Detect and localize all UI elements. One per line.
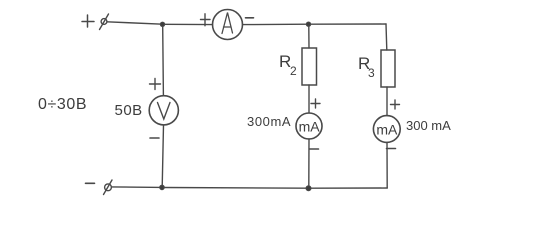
terminal X2 (- output, bottom-left)	[86, 180, 113, 195]
label 300 mA (right)	[406, 118, 451, 133]
svg-text:50B: 50B	[115, 102, 143, 119]
svg-text:300mA: 300mA	[247, 114, 291, 129]
node junction V-branch bottom	[160, 185, 165, 190]
svg-text:2: 2	[290, 64, 297, 78]
svg-text:0÷30B: 0÷30B	[38, 96, 87, 113]
resistor R2	[302, 26, 317, 113]
voltmeter V (50B)	[149, 27, 178, 188]
svg-text:300 mA: 300 mA	[406, 118, 451, 133]
label 0÷30B (voltmeter range)	[38, 96, 87, 113]
label 300mA (left)	[247, 114, 291, 129]
node junction R2-branch bottom	[306, 186, 311, 191]
svg-text:mA: mA	[299, 119, 321, 135]
node junction R2-branch top	[306, 22, 310, 26]
terminal X1 (+ input, top-left)	[82, 14, 109, 30]
ammeter A	[201, 10, 254, 40]
svg-text:mA: mA	[376, 122, 398, 138]
wire top to ammeter	[165, 23, 213, 25]
wire top-left segment	[107, 22, 163, 24]
wire bottom-right segment	[311, 187, 387, 189]
label 50B	[115, 102, 143, 119]
milliammeter PA3 (right, 300 mA)	[373, 100, 400, 188]
resistor R3	[381, 24, 395, 116]
wire ammeter to R2 junction	[243, 23, 309, 25]
wire top-right segment	[311, 23, 387, 25]
label R2	[279, 52, 297, 78]
node junction V-branch top	[160, 22, 164, 26]
milliammeter PA2 (left, 300mA)	[296, 99, 322, 188]
wire bottom middle segment	[164, 187, 309, 190]
svg-text:3: 3	[368, 66, 375, 80]
wire bottom-left segment	[112, 186, 163, 189]
label R3	[358, 54, 375, 80]
